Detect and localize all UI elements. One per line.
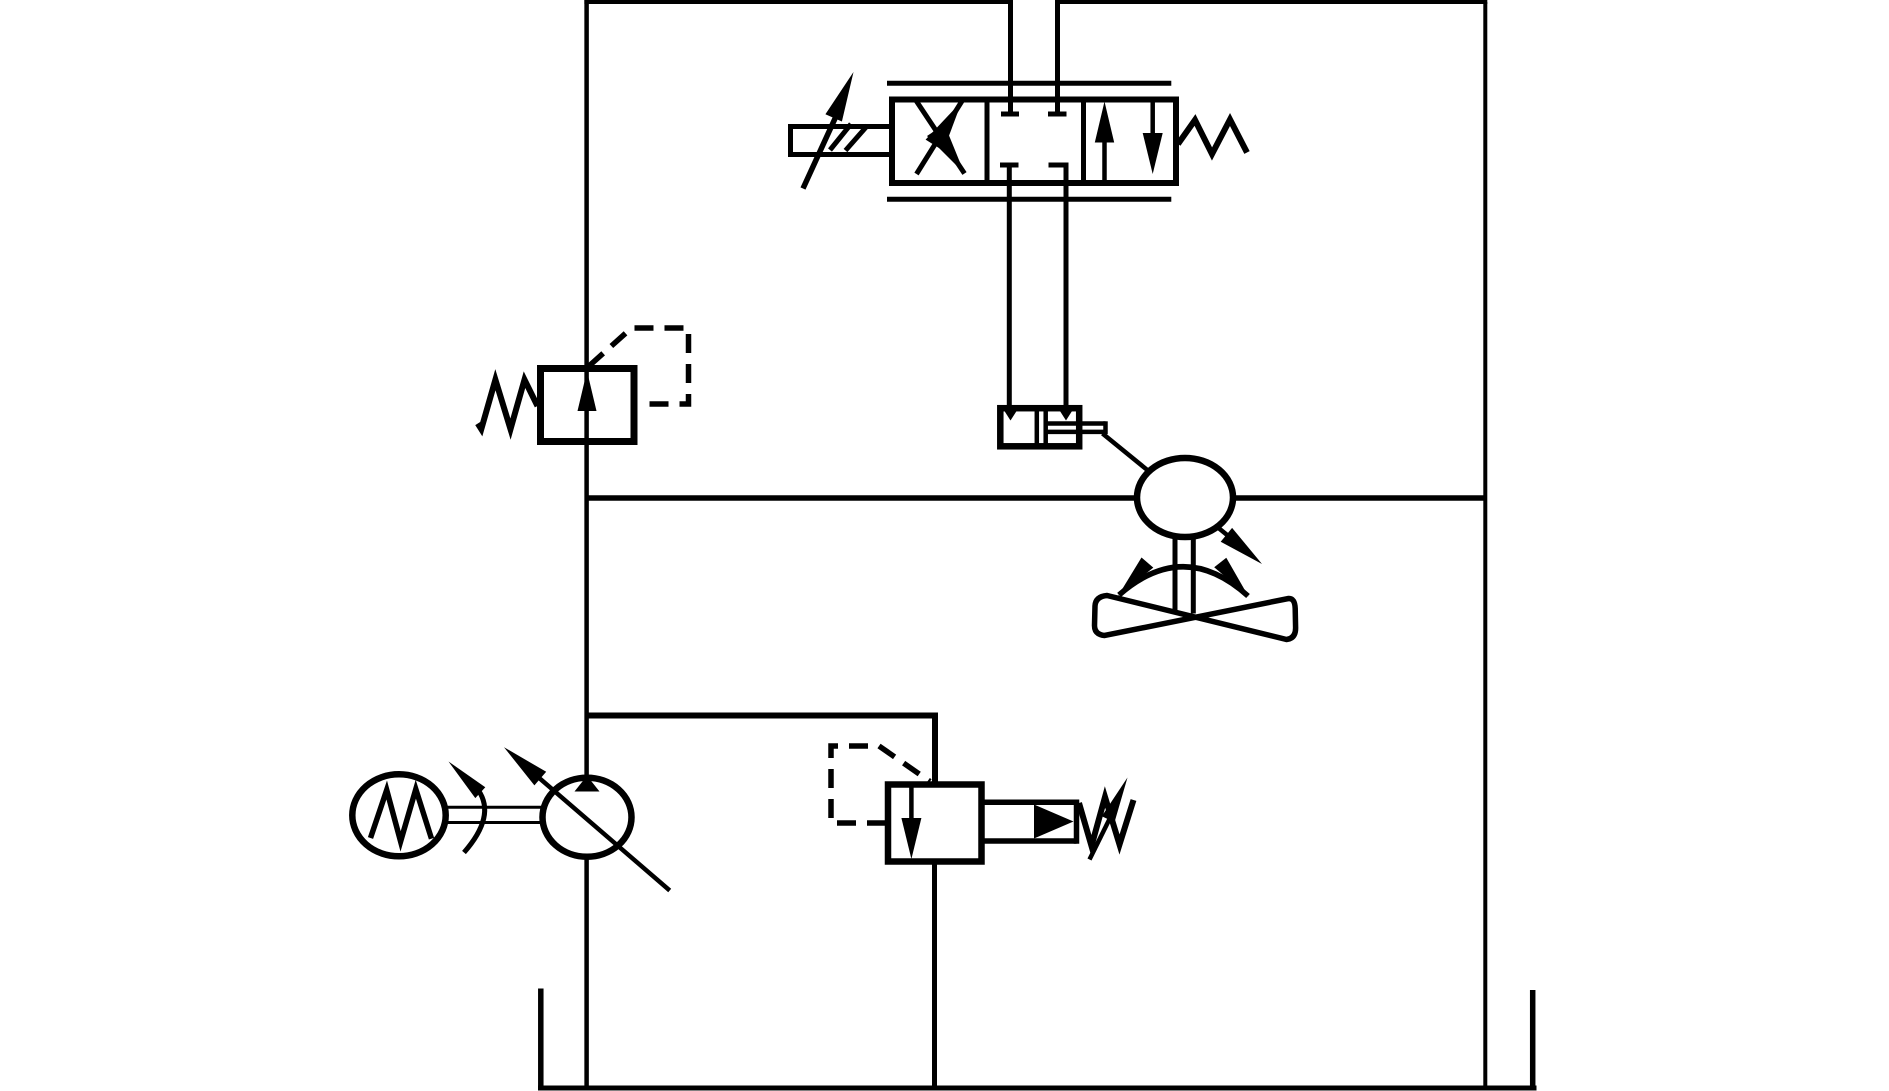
directional valve V1: center position blocked port T bar top-right xyxy=(1048,112,1067,117)
control cylinder: rod bottom line xyxy=(1046,430,1106,435)
directional valve V1: lever hatch mark 2 xyxy=(846,126,868,151)
fan blades xyxy=(1095,596,1296,640)
compensator valve CV1: adjustable spring xyxy=(1079,797,1134,846)
directional valve V1: divider left xyxy=(985,100,990,184)
compensator valve CV1: solenoid box bottom xyxy=(982,838,1077,844)
control cylinder: rod end cap xyxy=(1103,421,1108,434)
wire: compensator drain to tank xyxy=(932,860,937,1090)
wire: top frame right segment xyxy=(1058,0,1488,4)
pump P1: variable displacement diagonal xyxy=(516,758,670,891)
directional valve V1: body xyxy=(892,100,1176,184)
compensator valve CV1: internal arrowhead down xyxy=(901,818,921,859)
wire: valve to cylinder right line xyxy=(1064,165,1069,406)
wire: top frame left segment xyxy=(584,0,1010,4)
fan motor M1: variable displacement diagonal xyxy=(1103,434,1249,553)
relief valve RV1: pilot dashed loop xyxy=(589,328,689,404)
wire: valve to cylinder left line xyxy=(1007,165,1012,406)
directional valve V1: center position blocked port T bar top-left xyxy=(1001,112,1019,117)
directional valve V1: lever arrow shaft xyxy=(803,112,838,189)
compensator valve CV1: spring adjust arrowhead xyxy=(1102,778,1128,823)
directional valve V1: return spring xyxy=(1178,120,1247,155)
control cylinder: port arrowhead right xyxy=(1059,410,1072,421)
drive shaft line top xyxy=(446,806,542,809)
electric motor M: letter M xyxy=(371,789,432,841)
relief valve RV1: body xyxy=(541,369,635,442)
compensator valve CV1: internal arrow shaft xyxy=(909,784,914,822)
compensator valve CV1: body xyxy=(888,785,982,862)
directional valve V1: center position blocked port T bar bottom-left xyxy=(1000,163,1019,168)
pump P1: circle xyxy=(543,778,632,857)
directional valve V1: parallel-flow down arrowhead xyxy=(1143,133,1163,174)
compensator valve CV1: solenoid triangle xyxy=(1034,805,1074,839)
directional valve V1: lever hatch mark 1 xyxy=(830,124,851,150)
shaft rotation arc xyxy=(464,791,485,853)
directional valve V1: crossed-flow arrowhead down-right xyxy=(927,124,965,173)
relief valve RV1: spring xyxy=(478,380,538,429)
directional valve V1: port line to top frame (right) xyxy=(1055,0,1060,112)
pump P1: variable displacement arrowhead xyxy=(504,747,546,785)
directional valve V1: proportional rail bottom xyxy=(887,197,1171,202)
directional valve V1: crossed-flow position diagonal 2 xyxy=(917,101,963,174)
fan motor M1: output shaft line 2 xyxy=(1191,535,1196,614)
fan motor M1: output shaft line 1 xyxy=(1173,535,1178,614)
compensator valve CV1: solenoid box right edge xyxy=(1074,800,1080,844)
wire: left frame vertical (pump pressure line) xyxy=(584,0,589,1088)
wire: branch line to compensator valve xyxy=(587,716,935,787)
control cylinder: piston line 2 xyxy=(1043,408,1048,446)
directional valve V1: parallel-flow down arrow shaft xyxy=(1150,100,1155,141)
directional valve V1: proportional lever actuator box xyxy=(791,127,893,155)
directional valve V1: parallel-flow up arrowhead xyxy=(1095,102,1114,143)
wire: middle horizontal line to fan motor xyxy=(587,495,1486,501)
compensator valve CV1: spring adjust arrow shaft xyxy=(1090,814,1113,860)
control cylinder: body xyxy=(1000,408,1079,446)
directional valve V1: port line to top frame (left) xyxy=(1008,0,1013,112)
compensator valve CV1: solenoid box top xyxy=(982,800,1077,806)
directional valve V1: center position blocked port T bar bottom-right xyxy=(1049,163,1069,168)
fan rotation arrowhead left xyxy=(1118,558,1153,597)
fan motor M1: variable displacement arrowhead xyxy=(1221,528,1262,564)
directional valve V1: divider right xyxy=(1081,100,1086,184)
shaft rotation arrowhead xyxy=(449,762,486,799)
directional valve V1: proportional rail top xyxy=(887,81,1171,86)
drive shaft line bottom xyxy=(446,821,542,824)
control cylinder: port arrowhead left xyxy=(1004,410,1017,421)
directional valve V1: lever arrowhead xyxy=(825,72,853,122)
fan motor M1: motor ellipse xyxy=(1137,458,1233,537)
pump P1: outlet triangle xyxy=(575,776,600,792)
relief valve RV1: internal flow arrowhead xyxy=(578,371,597,411)
fan bidirectional rotation arc xyxy=(1119,567,1248,596)
compensator valve CV1: pilot dashed loop xyxy=(831,746,930,823)
directional valve V1: crossed-flow arrowhead up-right xyxy=(926,101,962,151)
wire: right frame vertical (return line) xyxy=(1483,2,1487,1088)
fan rotation arrowhead right xyxy=(1214,558,1248,597)
tank reservoir xyxy=(538,1086,1537,1091)
control cylinder: rod top line xyxy=(1046,421,1106,426)
control cylinder: piston line 1 xyxy=(1035,408,1040,446)
electric motor M: circle xyxy=(352,774,445,856)
directional valve V1: crossed-flow position diagonal 1 xyxy=(916,101,965,174)
directional valve V1: parallel-flow up arrow shaft xyxy=(1102,138,1107,183)
